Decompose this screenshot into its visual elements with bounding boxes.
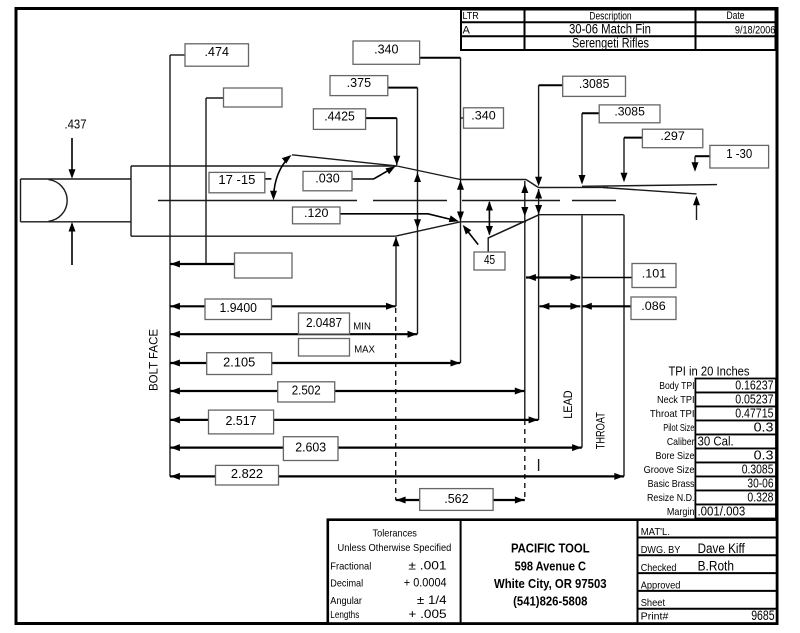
svg-text:2.502: 2.502	[292, 383, 321, 397]
svg-text:.001/.003: .001/.003	[698, 504, 746, 519]
svg-text:0.05237: 0.05237	[735, 392, 773, 407]
svg-text:45: 45	[484, 253, 495, 267]
svg-text:Resize N.D.: Resize N.D.	[647, 492, 695, 504]
svg-text:Throat TPI: Throat TPI	[650, 408, 695, 420]
svg-text:.030: .030	[315, 172, 339, 186]
svg-text:Decimal: Decimal	[330, 578, 363, 590]
svg-text:2.0487: 2.0487	[306, 316, 342, 330]
svg-text:B.Roth: B.Roth	[698, 559, 734, 574]
svg-text:THROAT: THROAT	[594, 412, 608, 450]
svg-text:30 Cal.: 30 Cal.	[698, 434, 734, 449]
svg-text:1.9400: 1.9400	[220, 301, 257, 315]
svg-text:.120: .120	[304, 206, 329, 220]
svg-text:MIN: MIN	[353, 321, 371, 332]
svg-text:.340: .340	[471, 109, 496, 123]
svg-text:A: A	[463, 24, 471, 36]
svg-text:.297: .297	[660, 129, 685, 143]
svg-text:2.603: 2.603	[295, 441, 326, 455]
svg-text:PACIFIC TOOL: PACIFIC TOOL	[511, 541, 590, 556]
svg-text:2.822: 2.822	[231, 467, 263, 481]
svg-text:LTR: LTR	[463, 10, 480, 22]
svg-text:Serengeti Rifles: Serengeti Rifles	[572, 36, 649, 51]
svg-text:Approved: Approved	[641, 580, 681, 592]
svg-text:+ .005: + .005	[408, 607, 447, 621]
svg-text:.474: .474	[205, 45, 229, 59]
svg-text:TPI in 20 Inches: TPI in 20 Inches	[668, 364, 749, 378]
svg-text:1 -30: 1 -30	[726, 147, 752, 161]
svg-text:.437: .437	[65, 118, 87, 132]
svg-text:Lengths: Lengths	[330, 609, 359, 621]
svg-text:MAX: MAX	[354, 345, 375, 356]
svg-text:2.105: 2.105	[223, 356, 255, 370]
svg-text:.101: .101	[642, 267, 667, 281]
svg-text:.3085: .3085	[579, 77, 610, 91]
svg-text:0.3: 0.3	[754, 420, 774, 435]
svg-text:Angular: Angular	[330, 595, 362, 607]
svg-text:Sheet: Sheet	[641, 597, 665, 609]
svg-text:30-06 Match Fin: 30-06 Match Fin	[569, 21, 651, 36]
svg-text:Print#: Print#	[641, 611, 669, 623]
svg-text:Bore Size: Bore Size	[656, 450, 695, 462]
svg-text:MAT'L.: MAT'L.	[641, 526, 670, 538]
svg-text:Body TPI: Body TPI	[659, 380, 694, 392]
svg-text:Tolerances: Tolerances	[373, 527, 417, 539]
svg-text:± .001: ± .001	[408, 559, 447, 573]
svg-text:LEAD: LEAD	[561, 390, 575, 419]
svg-text:Date: Date	[726, 10, 744, 22]
svg-text:White City, OR 97503: White City, OR 97503	[494, 576, 607, 591]
svg-text:9/18/2006: 9/18/2006	[735, 25, 775, 37]
svg-text:9685: 9685	[751, 608, 774, 623]
svg-text:0.16237: 0.16237	[735, 378, 773, 393]
svg-text:Margin: Margin	[667, 506, 695, 518]
svg-text:Unless Otherwise Specified: Unless Otherwise Specified	[338, 542, 452, 554]
svg-text:0.3: 0.3	[754, 448, 774, 463]
svg-text:598 Avenue C: 598 Avenue C	[515, 559, 587, 574]
svg-text:0.47715: 0.47715	[735, 406, 773, 421]
svg-text:Basic Brass: Basic Brass	[648, 478, 695, 490]
svg-text:DWG. BY: DWG. BY	[641, 544, 681, 556]
svg-text:BOLT FACE: BOLT FACE	[147, 329, 161, 391]
svg-text:.562: .562	[444, 491, 468, 506]
svg-text:30-06: 30-06	[747, 476, 773, 491]
svg-text:.086: .086	[641, 299, 666, 313]
svg-text:± 1/4: ± 1/4	[417, 593, 447, 607]
svg-text:0.328: 0.328	[747, 490, 773, 505]
svg-text:.375: .375	[347, 76, 371, 90]
svg-text:Pilot Size: Pilot Size	[663, 422, 694, 434]
svg-text:.4425: .4425	[324, 110, 355, 124]
svg-text:Checked: Checked	[641, 562, 677, 574]
svg-text:0.3085: 0.3085	[742, 462, 774, 477]
svg-text:Fractional: Fractional	[330, 561, 371, 573]
svg-text:Neck TPI: Neck TPI	[657, 394, 695, 406]
svg-text:17 -15: 17 -15	[218, 173, 255, 187]
svg-text:2.517: 2.517	[226, 414, 257, 428]
svg-text:(541)826-5808: (541)826-5808	[513, 593, 587, 608]
svg-text:.3085: .3085	[614, 104, 645, 118]
svg-text:Dave Kiff: Dave Kiff	[698, 541, 745, 556]
svg-text:+ 0.0004: + 0.0004	[404, 576, 447, 590]
svg-text:Caliber: Caliber	[667, 436, 695, 448]
svg-text:.340: .340	[374, 42, 398, 56]
svg-text:Groove Size: Groove Size	[644, 464, 695, 476]
